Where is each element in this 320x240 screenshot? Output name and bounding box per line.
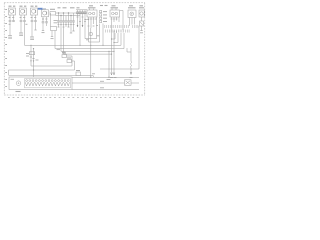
- wire group2 right goes to bus y44: [24, 15, 26, 45]
- K1 pin wires: [88, 17, 90, 42]
- label F1: [9, 5, 16, 7]
- sensor B2 right: [139, 10, 144, 17]
- label B1: [128, 6, 136, 8]
- K2 pin wires: [111, 17, 113, 75]
- bus drop 7: [72, 13, 74, 31]
- bus line lower y15.5: [56, 15, 81, 17]
- bottom left big connector box: [9, 77, 72, 90]
- long line y48.6: [55, 48, 124, 50]
- label F3: [31, 5, 38, 7]
- vertical riser x109: [108, 51, 110, 77]
- fuse list row2: [100, 14, 108, 16]
- terminal end W: [8, 35, 12, 37]
- right column labels cluster: [105, 25, 138, 33]
- connector box X3 on y83: [125, 80, 132, 86]
- connector X1 small: [62, 55, 67, 58]
- B2 wire and connector: [141, 17, 143, 21]
- arrow wire c: [82, 10, 84, 27]
- fuse F1 group1: [9, 8, 16, 15]
- wire labels g1: [9, 18, 15, 25]
- fuse F2 group2: [20, 8, 27, 15]
- wire group3 right: [35, 15, 37, 30]
- cluster vertical stubs: [113, 31, 115, 34]
- connector tick g1 left: [9, 20, 11, 22]
- wire group1 right: [13, 15, 15, 22]
- bus labels: [58, 7, 80, 9]
- bottom bus extensions right of box: [72, 76, 139, 78]
- line from X2 right then down then left y70: [9, 61, 75, 76]
- motor circle: [16, 81, 21, 86]
- connector ends bottom right: [111, 73, 113, 76]
- wire group3 left: [31, 15, 33, 37]
- arrow wire a: [77, 10, 79, 27]
- wire below list: [102, 24, 104, 46]
- grid reference numbers bottom row: [8, 97, 139, 99]
- left pair component lower: [33, 49, 35, 70]
- bus drop 1: [58, 12, 60, 27]
- horizontal H2 y53.8: [64, 53, 112, 55]
- feed box left of bus: [50, 12, 56, 16]
- fuse list row1: [100, 11, 108, 13]
- sensor B1: [128, 10, 136, 18]
- grid reference ticks left border: [5, 10, 7, 87]
- dashed page border: [4, 3, 145, 95]
- K1 left link: [85, 19, 89, 21]
- wire group1 left: [9, 15, 11, 36]
- U-link relay pins y38.7: [85, 38, 97, 40]
- labels on bottom buses: [100, 81, 104, 88]
- bus drop 2: [60, 15, 62, 52]
- bus drop 3: [63, 12, 65, 54]
- connector strip pattern: [25, 80, 69, 86]
- fuse list row4: [100, 20, 108, 22]
- wire between K2 and B1: [122, 11, 124, 31]
- wire group4 left: [42, 17, 44, 31]
- fuse list labels top: [100, 5, 108, 7]
- label below: [8, 37, 12, 39]
- fuse F4 group4: [42, 10, 49, 17]
- U-link y42: [89, 41, 100, 43]
- wire group2 left: [20, 15, 22, 33]
- label F2: [20, 5, 27, 7]
- link y39 right: [112, 38, 116, 40]
- resistor squiggle right: [130, 48, 132, 62]
- wire group4 right: [46, 17, 48, 26]
- B1 pin wires: [129, 18, 131, 27]
- top link line to relay: [76, 9, 87, 11]
- corner top right of squiggle: [127, 48, 131, 52]
- connector X2 small: [67, 60, 72, 63]
- long bus y75.5: [9, 75, 93, 77]
- fuse F3 group3: [31, 8, 38, 15]
- blue highlight label: [38, 8, 43, 10]
- relay K2: [110, 8, 120, 17]
- label K2: [111, 6, 119, 8]
- bus drop 4: [65, 16, 67, 28]
- bus drop labels: [58, 25, 75, 28]
- link y42.5 right: [114, 42, 118, 44]
- arrow wire d: [84, 10, 86, 39]
- bus drop 6: [70, 15, 72, 33]
- junction label x93: [92, 73, 95, 75]
- horizontal y69 right: [100, 68, 139, 70]
- wire end labels mid right: [86, 26, 100, 40]
- mid lamp on wire x91: [90, 28, 92, 78]
- small connector above bottom box: [76, 72, 81, 76]
- horizontal H1 y50.8: [61, 50, 114, 52]
- label K1: [88, 6, 96, 8]
- label B2: [139, 6, 144, 8]
- small box on x55 riser: [54, 31, 56, 49]
- line from X1 right then down then left y66: [31, 56, 72, 66]
- bus line upper y13: [56, 12, 88, 14]
- left pair component upper: [30, 45, 32, 66]
- label under motor: [16, 91, 21, 93]
- relay K1: [87, 9, 97, 17]
- long line y45.3: [25, 44, 122, 46]
- bus drop 5: [68, 12, 70, 27]
- arrow wire b: [79, 10, 81, 46]
- inner pattern box: [25, 79, 71, 88]
- fuse list row3: [100, 17, 108, 19]
